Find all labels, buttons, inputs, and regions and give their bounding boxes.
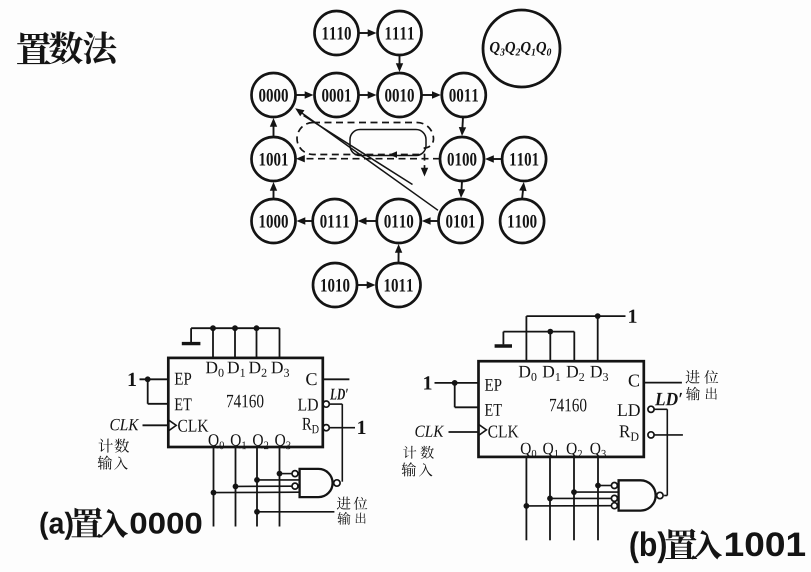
label constant 1 top (b) [629, 310, 636, 323]
wire transition 1001 to 0000 [270, 118, 277, 137]
wire Q2 output vertical (b) [573, 457, 575, 540]
wire Q2 to G1 input 2 (a) [254, 477, 300, 483]
junction dot D3 bus (b) [595, 313, 601, 319]
wire Q3 output vertical (b) [597, 457, 599, 540]
wire Q0 output vertical (a) [213, 447, 215, 527]
pin label C (b) [629, 375, 639, 387]
label 进位输出 (b) [686, 370, 719, 400]
wire transition 0000 to 0001 [296, 91, 314, 98]
node 1010 [313, 263, 357, 307]
wire transition 1000 to 1001 [270, 182, 277, 199]
wire reset path double line 0101 to 0000 [295, 108, 438, 210]
node 0101 [439, 199, 483, 243]
pin bubble LD (b) [648, 406, 654, 412]
wire transition 1010 to 1011 [357, 281, 376, 288]
wire LD to NAND output (a) [329, 404, 342, 482]
pin label D1 (b) [543, 366, 560, 381]
node 0001 [315, 73, 359, 117]
node 0011 [442, 73, 486, 117]
pin label D2 (a) [249, 362, 267, 377]
wire transition 1110 to 1111 [359, 29, 377, 36]
wire RD to 1 (a) [329, 427, 355, 429]
wire C carry output (b) [644, 382, 682, 384]
pin bubble LD (a) [323, 401, 329, 407]
label U2 74160 [550, 399, 586, 412]
pin label Q0 (a) [209, 434, 224, 449]
pin label ET (a) [175, 398, 192, 410]
junction dot EP branch (b) [452, 380, 458, 386]
pin label Q2 (a) [253, 434, 268, 449]
wire Q1 to G1 input 3 (a) [233, 484, 292, 490]
pin label C (a) [306, 373, 316, 385]
label U1 74160 [227, 395, 263, 408]
input bubble G2 from Q3 (b) [611, 483, 617, 489]
wire transition 1111 to 0010 [396, 55, 403, 72]
label LD' (b) [655, 393, 682, 405]
wire inner loop rounded rect with arrow [350, 130, 426, 158]
wire transition 0101 to 0110 [422, 217, 439, 224]
wire dashed load loop stadium [297, 123, 434, 177]
wire Q0 output vertical (b) [525, 457, 527, 540]
wire 1 to EP (a) [140, 378, 169, 380]
pin label Q1 (a) [231, 434, 246, 449]
label CLK input (a) [110, 419, 139, 431]
pin label D0 (a) [206, 362, 224, 377]
wire CLK to chip (b) [449, 431, 479, 433]
counter U2 74160 body (b) [479, 361, 644, 457]
node state-variable legend circle Q3Q2Q1Q0 [483, 10, 560, 87]
pin bubble RD (b) [648, 432, 654, 438]
pin label RD (a) [302, 418, 318, 433]
counter U1 74160 body (a) [168, 358, 322, 447]
caption (b) 置入1001 [630, 529, 805, 563]
wire 1 to EP (b) [435, 382, 479, 384]
pin label Q2 (b) [567, 443, 582, 458]
wire transition 0001 to 0010 [359, 91, 377, 98]
node 1011 [377, 263, 421, 307]
node 1110 [315, 11, 359, 55]
wire LD to NAND output (b) [654, 409, 667, 495]
junction dot D1 bus (b) [547, 329, 553, 335]
wire Q0 to G1 input 4 (a) [211, 490, 300, 496]
wire (a) D0-D3 ground bus [191, 328, 279, 358]
label constant 1 at EP (b) [424, 376, 431, 389]
input bubble G1 from Q1 (a) [292, 483, 298, 489]
wire carry output tap (a) [254, 509, 334, 515]
label 进位输出 (a) [337, 497, 367, 525]
wire Q3 to G1 input 1 (a) [277, 471, 292, 477]
node 0111 [313, 199, 357, 243]
pin label D2 (b) [567, 366, 585, 381]
pin label Q0 (b) [521, 443, 536, 458]
input bubble G2 from Q1 (b) [611, 495, 617, 501]
node 0000 [252, 73, 296, 117]
input bubble G2 from Q0 (b) [611, 503, 617, 509]
wire CLK to chip (a) [143, 424, 169, 426]
ground GND1 (a) [182, 328, 201, 343]
wire Q1 output vertical (a) [235, 447, 237, 527]
pin label LD (a) [298, 399, 318, 411]
wire transition 0100 to 0101 [458, 181, 465, 198]
wire transition 0111 to 1000 [297, 217, 313, 224]
wire Q3 output vertical (a) [279, 447, 281, 527]
pin label EP (b) [485, 379, 502, 391]
pin label CLK (a) with clock triangle [168, 420, 208, 432]
wire Q1 to G2 input 3 (b) [547, 496, 611, 502]
pin bubble RD (a) [323, 425, 329, 431]
pin label Q3 (b) [590, 443, 605, 458]
node 1101 [502, 137, 546, 181]
wire (b) D1 D2 ground bus [503, 332, 574, 362]
label CLK input (b) [415, 426, 444, 438]
node 0110 [377, 199, 421, 243]
wire C output (a) [323, 378, 350, 380]
wire transition 1100 to 1101 [519, 182, 526, 199]
wire transition 0110 to 0111 [358, 217, 377, 224]
pin label LD (b) [618, 404, 640, 416]
output bubble G1 (a) [334, 480, 340, 486]
pin label ET (b) [485, 404, 502, 416]
pin label Q3 (a) [275, 434, 290, 449]
pin label Q1 (b) [543, 443, 558, 458]
input bubble G1 from Q3 (a) [292, 471, 298, 477]
wire RD open (b) [654, 434, 683, 436]
wire Q3 to G2 input 1 (b) [595, 483, 611, 489]
pin label D3 (a) [271, 362, 289, 377]
label 计数输入 (a) [98, 439, 129, 470]
node 1111 [378, 11, 422, 55]
ground GND2 (b) [495, 332, 512, 346]
junction dots (a) data bus [210, 325, 259, 331]
wire dashed transition 0100 to 1001 [296, 155, 440, 162]
wire transition 0010 to 0011 [422, 91, 441, 98]
node 1000 [252, 199, 296, 243]
wire Q2 to G2 input 2 (b) [571, 489, 619, 495]
caption (a) 置入0000 [40, 508, 201, 540]
junction dot EP branch (a) [145, 376, 151, 382]
wire Q2 output vertical (a) [256, 447, 258, 527]
label constant 1 at RD (a) [358, 421, 365, 434]
wire Q1 output vertical (b) [549, 457, 551, 540]
label LD' (a) [330, 389, 348, 400]
wire transition 1011 to 0110 [395, 244, 402, 263]
pin label D1 (a) [228, 362, 245, 377]
wire transition 1101 to 0100 [485, 155, 502, 162]
wire Q0 to G2 input 4 (b) [524, 503, 612, 509]
wire (b) D0 and D3 to constant 1 bus [526, 316, 625, 361]
title 置数法 [17, 31, 117, 64]
pin label CLK (b) with clock triangle [479, 424, 519, 437]
nand gate G2 (b) [619, 480, 656, 510]
wire transition 0011 to 0100 [459, 117, 466, 136]
pin label RD (b) [620, 425, 639, 440]
label constant 1 at EP (a) [129, 373, 136, 386]
node 0010 [378, 73, 422, 117]
pin label EP (a) [175, 373, 192, 385]
wire branch to ET (a) [148, 379, 169, 404]
output bubble G2 (b) [657, 492, 663, 498]
node 1001 [252, 137, 296, 181]
nand gate G1 (a) [300, 469, 333, 497]
pin label D0 (b) [519, 366, 537, 381]
node 0100 [440, 137, 484, 181]
pin label D3 (b) [590, 366, 608, 381]
wire branch to ET (b) [455, 383, 479, 407]
node 1100 [500, 199, 544, 243]
label 计数输入 (b) [402, 446, 434, 477]
